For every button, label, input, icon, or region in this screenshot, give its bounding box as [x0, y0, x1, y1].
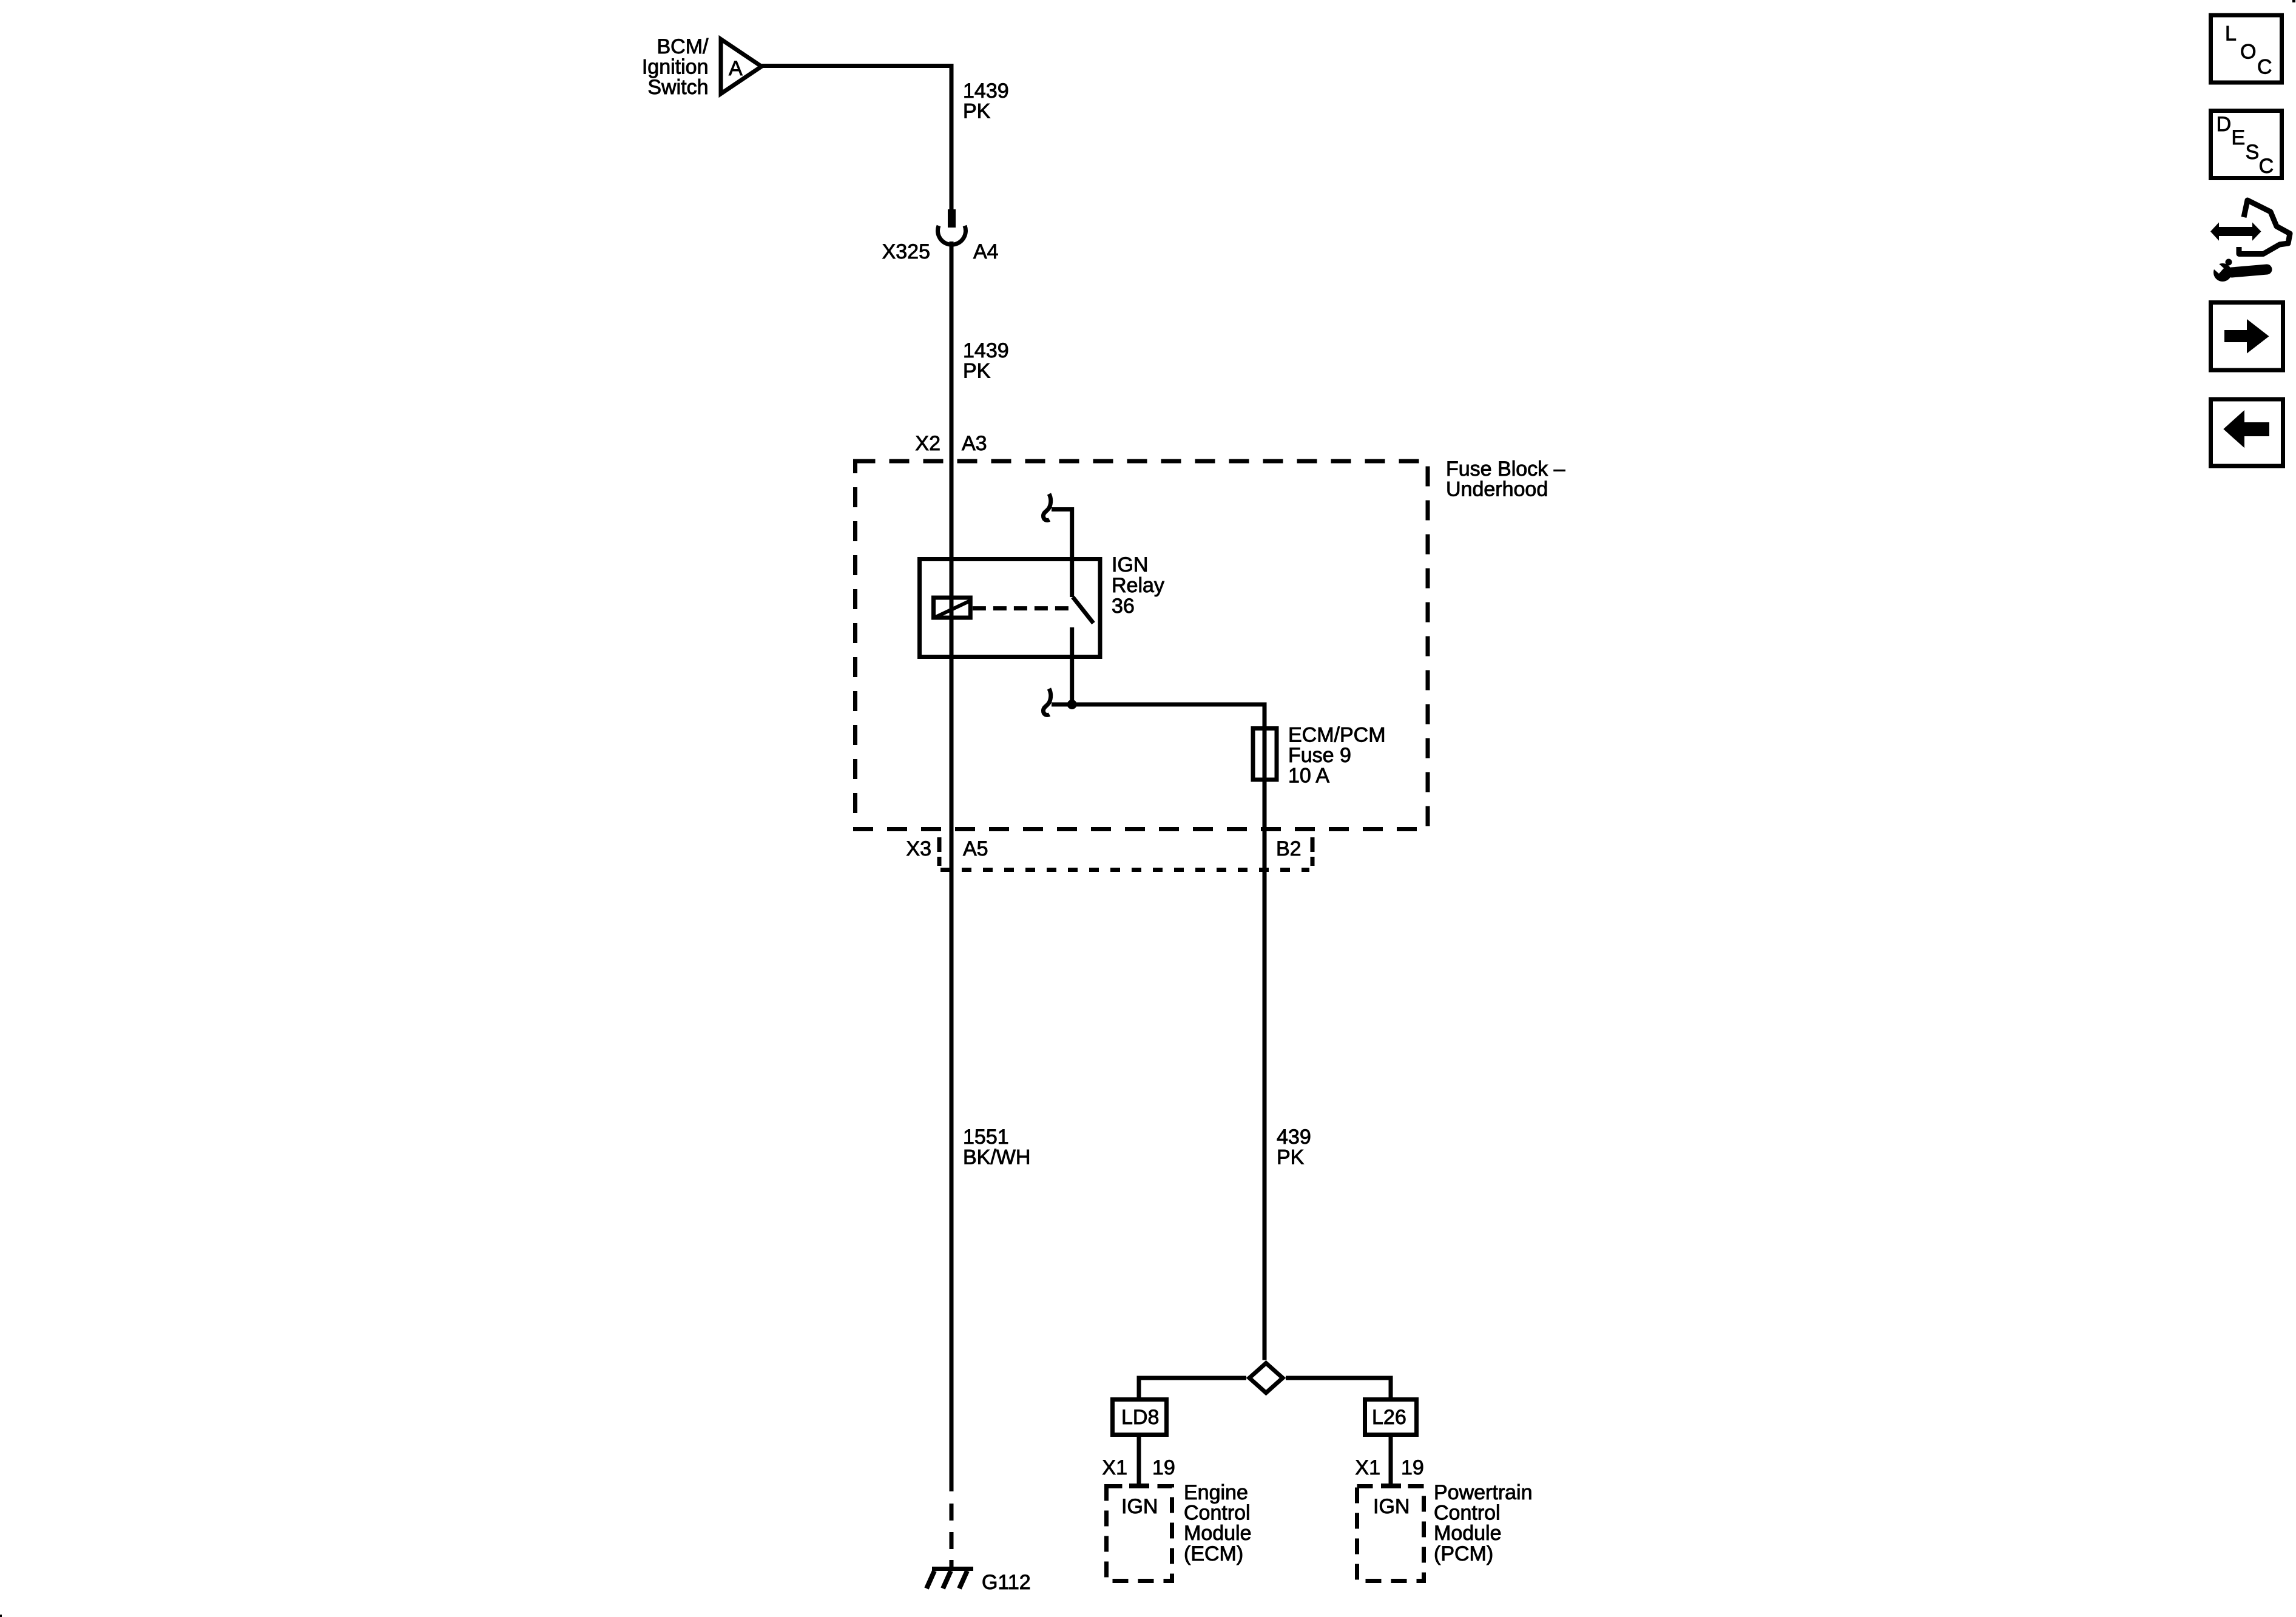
- svg-text:IGN: IGN: [1112, 553, 1148, 576]
- label: Powertrain Control Module (PCM): [1434, 1481, 1533, 1565]
- svg-text:1439: 1439: [963, 79, 1009, 103]
- svg-text:19: 19: [1152, 1456, 1175, 1479]
- svg-text:O: O: [2240, 40, 2256, 63]
- svg-text:10 A: 10 A: [1288, 765, 1329, 788]
- svg-text:A: A: [729, 57, 743, 80]
- svg-text:Powertrain: Powertrain: [1434, 1481, 1533, 1504]
- option box LD8: [1113, 1400, 1167, 1435]
- svg-text:BK/WH: BK/WH: [963, 1146, 1030, 1169]
- icon: next arrow button: [2211, 303, 2283, 371]
- svg-text:X325: X325: [882, 240, 930, 263]
- svg-text:1551: 1551: [963, 1126, 1009, 1149]
- wire 1439 PK : from connector down into fuse block to relay coil and beyond: [950, 241, 954, 1491]
- svg-text:G112: G112: [982, 1571, 1031, 1594]
- svg-text:B2: B2: [1276, 837, 1302, 860]
- wire: splice to L26: [1286, 1378, 1391, 1397]
- option box L26: [1365, 1400, 1417, 1435]
- svg-text:L26: L26: [1372, 1406, 1406, 1429]
- wire: relay switch output: [1070, 627, 1074, 704]
- svg-text:D: D: [2217, 113, 2232, 136]
- svg-text:Switch: Switch: [647, 76, 708, 99]
- svg-text:PK: PK: [963, 360, 991, 383]
- connector X325 pin A4 : female cup: [938, 226, 966, 245]
- fuse F9 : ECM/PCM Fuse 9 10A: [1253, 729, 1277, 780]
- wire: dashed ground lead: [950, 1491, 954, 1569]
- terminal tick at ECM: [1129, 1484, 1149, 1488]
- icon: DESC button: [2211, 111, 2282, 178]
- svg-text:36: 36: [1112, 595, 1135, 618]
- svg-text:BCM/: BCM/: [657, 35, 709, 58]
- svg-text:A5: A5: [963, 837, 988, 860]
- relay actuation dashed link: [973, 606, 1073, 610]
- svg-text:X3: X3: [906, 837, 931, 860]
- svg-text:ECM/PCM: ECM/PCM: [1288, 724, 1386, 747]
- svg-text:Relay: Relay: [1112, 574, 1164, 597]
- svg-text:X1: X1: [1355, 1456, 1380, 1479]
- splice S: diamond: [1249, 1363, 1283, 1393]
- wire from triangle A : horizontal then vertical down to connector X325: [761, 66, 951, 210]
- ground G112 symbol: [927, 1567, 973, 1588]
- svg-text:X1: X1: [1102, 1456, 1127, 1479]
- wire: L26 to PCM: [1389, 1437, 1393, 1484]
- svg-text:Fuse 9: Fuse 9: [1288, 744, 1351, 767]
- svg-text:S: S: [2246, 141, 2260, 164]
- wire: splice to LD8: [1139, 1378, 1246, 1397]
- svg-text:L: L: [2225, 22, 2237, 46]
- svg-text:Underhood: Underhood: [1446, 478, 1548, 501]
- PCM dashed box: [1357, 1487, 1424, 1581]
- svg-text:Module: Module: [1184, 1522, 1252, 1545]
- label: Engine Control Module (ECM): [1184, 1481, 1252, 1565]
- svg-text:Ignition: Ignition: [642, 56, 709, 79]
- svg-text:Control: Control: [1184, 1502, 1251, 1525]
- svg-text:IGN: IGN: [1373, 1495, 1410, 1518]
- terminal tick at PCM: [1381, 1484, 1401, 1488]
- connector X325 pin A4 : male blade: [948, 209, 956, 228]
- svg-text:A3: A3: [962, 432, 987, 455]
- svg-text:(ECM): (ECM): [1184, 1542, 1243, 1565]
- svg-text:PK: PK: [1277, 1146, 1305, 1169]
- svg-text:Fuse Block –: Fuse Block –: [1446, 457, 1565, 481]
- svg-text:X2: X2: [915, 432, 940, 455]
- svg-text:Engine: Engine: [1184, 1481, 1248, 1504]
- icon: LOC button: [2211, 15, 2282, 83]
- label: BCM/Ignition Switch: [642, 35, 709, 99]
- icon: service info (double arrow, outline, wrench): [2209, 200, 2290, 282]
- relay terminal clip (top): [1043, 494, 1050, 520]
- artifact dot bottom-left: [0, 1615, 2, 1617]
- connector pass-through band (dotted): [940, 868, 1309, 872]
- relay switch blade: [1073, 597, 1093, 623]
- wire: LD8 to ECM: [1137, 1437, 1141, 1484]
- svg-text:Control: Control: [1434, 1502, 1501, 1525]
- junction dot: [1067, 700, 1077, 709]
- svg-text:PK: PK: [963, 100, 991, 123]
- wire: from relay output to fuse, with junction: [1052, 704, 1264, 726]
- ECM dashed box: [1107, 1487, 1172, 1581]
- svg-text:(PCM): (PCM): [1434, 1542, 1493, 1565]
- node A : BCM/Ignition Switch off-page triangle connector: [721, 39, 761, 94]
- svg-text:1439: 1439: [963, 339, 1009, 362]
- svg-text:C: C: [2257, 55, 2272, 78]
- svg-text:Module: Module: [1434, 1522, 1502, 1545]
- icon: back arrow button: [2211, 399, 2283, 466]
- relay coil: [934, 598, 971, 618]
- svg-text:C: C: [2259, 155, 2274, 178]
- Fuse Block - Underhood dashed enclosure: [856, 461, 1428, 829]
- relay K: IGN Relay 36 outline box: [920, 559, 1101, 657]
- svg-text:E: E: [2232, 126, 2246, 149]
- svg-text:A4: A4: [973, 240, 999, 263]
- wire: relay switch feed (top): [1052, 510, 1072, 598]
- svg-text:IGN: IGN: [1121, 1495, 1158, 1518]
- svg-text:LD8: LD8: [1121, 1406, 1159, 1429]
- wire through fuse down to splice: [1263, 726, 1267, 1360]
- svg-text:19: 19: [1401, 1456, 1424, 1479]
- artifact dot top-right: [2292, 0, 2295, 2]
- svg-text:439: 439: [1277, 1126, 1311, 1149]
- relay terminal clip (bottom): [1043, 689, 1050, 715]
